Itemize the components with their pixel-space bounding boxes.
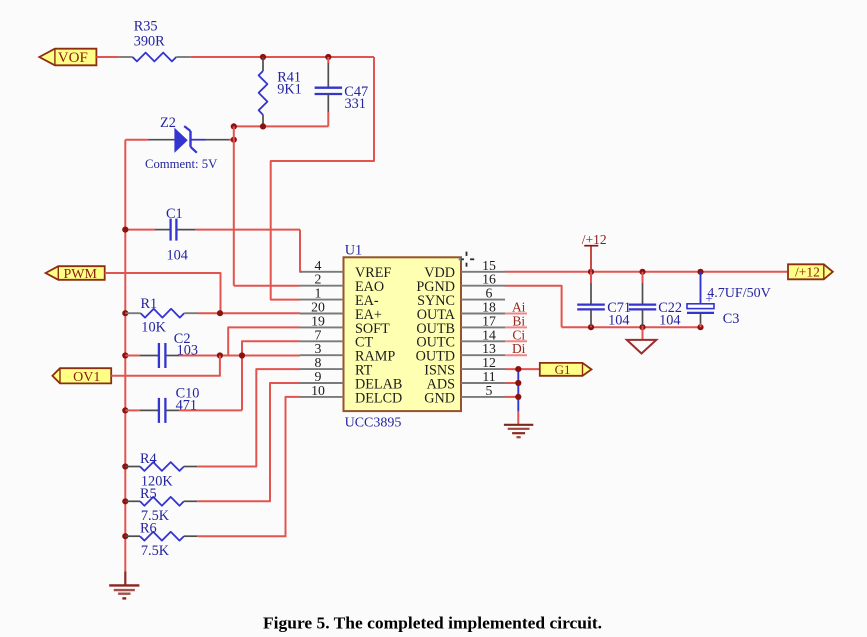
svg-text:8: 8 (315, 355, 322, 370)
svg-text:104: 104 (167, 248, 188, 264)
svg-text:3: 3 (315, 341, 322, 356)
svg-text:14: 14 (482, 327, 496, 342)
svg-text:9K1: 9K1 (277, 82, 302, 98)
svg-text:11: 11 (482, 369, 495, 384)
svg-text:R5: R5 (140, 486, 157, 502)
svg-text:Ci: Ci (512, 327, 525, 342)
svg-text:7: 7 (315, 327, 322, 342)
svg-text:5: 5 (486, 383, 493, 398)
svg-text:Ai: Ai (512, 300, 526, 315)
svg-text:2: 2 (315, 272, 322, 287)
svg-text:19: 19 (311, 313, 325, 328)
svg-text:18: 18 (482, 300, 496, 315)
svg-text:4: 4 (315, 258, 322, 273)
svg-text:UCC3895: UCC3895 (345, 415, 402, 430)
svg-text:331: 331 (345, 96, 366, 112)
svg-text:16: 16 (482, 272, 496, 287)
svg-text:/+12: /+12 (795, 264, 820, 279)
svg-text:Comment: 5V: Comment: 5V (145, 157, 218, 171)
svg-text:Bi: Bi (512, 313, 525, 328)
svg-text:OV1: OV1 (73, 370, 100, 385)
svg-text:20: 20 (311, 300, 325, 315)
svg-text:7.5K: 7.5K (141, 543, 170, 559)
svg-text:9: 9 (315, 369, 322, 384)
svg-text:R35: R35 (134, 19, 158, 35)
svg-text:R6: R6 (140, 521, 157, 537)
svg-text:104: 104 (659, 313, 680, 329)
svg-text:13: 13 (482, 341, 496, 356)
svg-text:471: 471 (176, 397, 197, 413)
svg-text:12: 12 (482, 355, 496, 370)
svg-text:15: 15 (482, 258, 496, 273)
svg-text:Figure 5. The completed implem: Figure 5. The completed implemented circ… (263, 613, 602, 632)
svg-text:/+12: /+12 (582, 232, 607, 247)
svg-text:VOF: VOF (58, 50, 88, 66)
svg-text:C3: C3 (723, 311, 740, 327)
svg-text:DELCD: DELCD (355, 390, 402, 406)
svg-text:6: 6 (486, 286, 493, 301)
svg-text:1: 1 (315, 286, 322, 301)
svg-text:Di: Di (512, 341, 526, 356)
svg-text:103: 103 (177, 343, 198, 359)
svg-text:Z2: Z2 (160, 115, 176, 131)
svg-text:U1: U1 (345, 243, 362, 259)
svg-text:390R: 390R (134, 34, 165, 50)
svg-text:G1: G1 (555, 362, 571, 377)
svg-text:PWM: PWM (63, 267, 97, 282)
svg-text:R4: R4 (140, 451, 157, 467)
svg-text:104: 104 (608, 313, 629, 329)
svg-text:4.7UF/50V: 4.7UF/50V (707, 286, 770, 301)
svg-text:GND: GND (424, 390, 455, 406)
svg-text:10K: 10K (141, 320, 166, 336)
svg-text:10: 10 (311, 383, 325, 398)
svg-text:R1: R1 (141, 296, 158, 312)
svg-text:17: 17 (482, 313, 496, 328)
svg-text:C1: C1 (166, 206, 183, 222)
